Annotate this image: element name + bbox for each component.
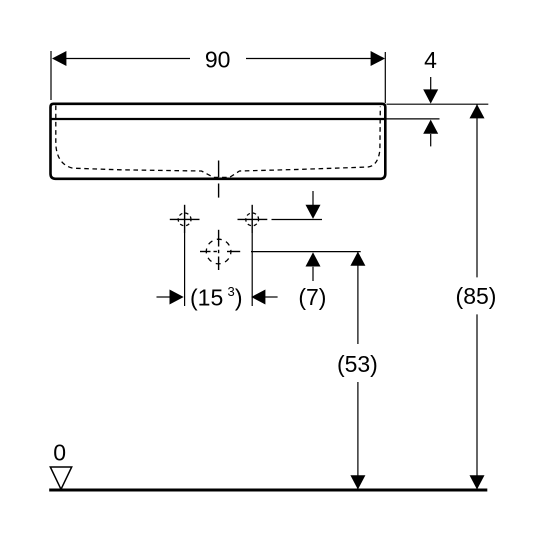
- dimension 85: up arrowhead at basin top: [470, 104, 485, 118]
- dimension 90: left extension line: [50, 51, 52, 100]
- svg-text:(85): (85): [456, 283, 497, 309]
- drain cross vertical chain: [218, 230, 220, 270]
- svg-text:(53): (53): [337, 351, 378, 377]
- dimension 7: upper stub line: [312, 191, 314, 205]
- basin outer outline: [51, 104, 386, 179]
- dimension 85: vertical line upper segment: [476, 104, 478, 277]
- right tap hole dashed circle: [246, 213, 259, 226]
- floor line: [49, 489, 487, 492]
- dimension 53: vertical line lower segment: [357, 382, 359, 490]
- dimension 90: dimension line left segment: [64, 58, 190, 60]
- dimension 85: vertical line lower segment: [476, 314, 478, 489]
- dimension 85: down arrowhead at floor: [470, 475, 485, 489]
- top surface reference line (extends right from basin): [387, 103, 489, 105]
- datum triangle symbol: [50, 467, 71, 489]
- dimension 90: left arrowhead: [52, 51, 66, 66]
- dimension 90: right arrowhead: [371, 51, 385, 66]
- svg-text:4: 4: [424, 47, 437, 73]
- basin rim line: [51, 118, 386, 120]
- drain axis reference line: [251, 251, 361, 253]
- dimension 53: up arrowhead at drain axis: [350, 252, 365, 266]
- dimension 15-3: left arrow tail: [157, 296, 171, 298]
- drain hole dashed circle: [206, 239, 231, 264]
- left tap hole dashed circle: [178, 213, 191, 226]
- basin inner bowl hidden outline (dashed): [56, 106, 381, 178]
- svg-text:0: 0: [53, 439, 66, 465]
- dimension 53: down arrowhead at floor: [350, 475, 365, 489]
- svg-text:(153): (153): [190, 284, 243, 311]
- svg-text:90: 90: [205, 47, 231, 73]
- dimension 7: up arrowhead: [306, 252, 321, 266]
- left tap hole cross (chain cross): [170, 205, 200, 233]
- right tap extension line down: [251, 233, 253, 306]
- rim bottom reference line (extends right from basin): [387, 118, 440, 120]
- dimension 15-3: right arrow tail: [265, 296, 278, 298]
- right tap hole cross (chain cross): [238, 205, 268, 233]
- dimension 53: vertical line upper segment: [357, 252, 359, 344]
- dimension 7: lower stub line: [312, 267, 314, 281]
- dimension 4: down arrowhead: [423, 89, 438, 103]
- left tap extension line down: [184, 233, 186, 306]
- dimension 15-3: right-pointing arrowhead: [170, 290, 184, 305]
- dimension 90: right extension line: [384, 52, 386, 103]
- dimension 7: down arrowhead: [306, 205, 321, 219]
- centerline of basin (chain line): [218, 161, 220, 198]
- dimension 4: upper stub line: [430, 77, 432, 90]
- svg-text:(7): (7): [298, 284, 326, 310]
- dimension 15-3: left-pointing arrowhead: [251, 290, 265, 305]
- drain cross horizontal chain: [200, 251, 240, 253]
- dimension 7: upper reference line (tap hole axis): [272, 219, 323, 221]
- dimension 4: lower stub line: [430, 134, 432, 146]
- dimension 4: up arrowhead: [423, 120, 438, 134]
- dimension 90: dimension line right segment: [246, 58, 373, 60]
